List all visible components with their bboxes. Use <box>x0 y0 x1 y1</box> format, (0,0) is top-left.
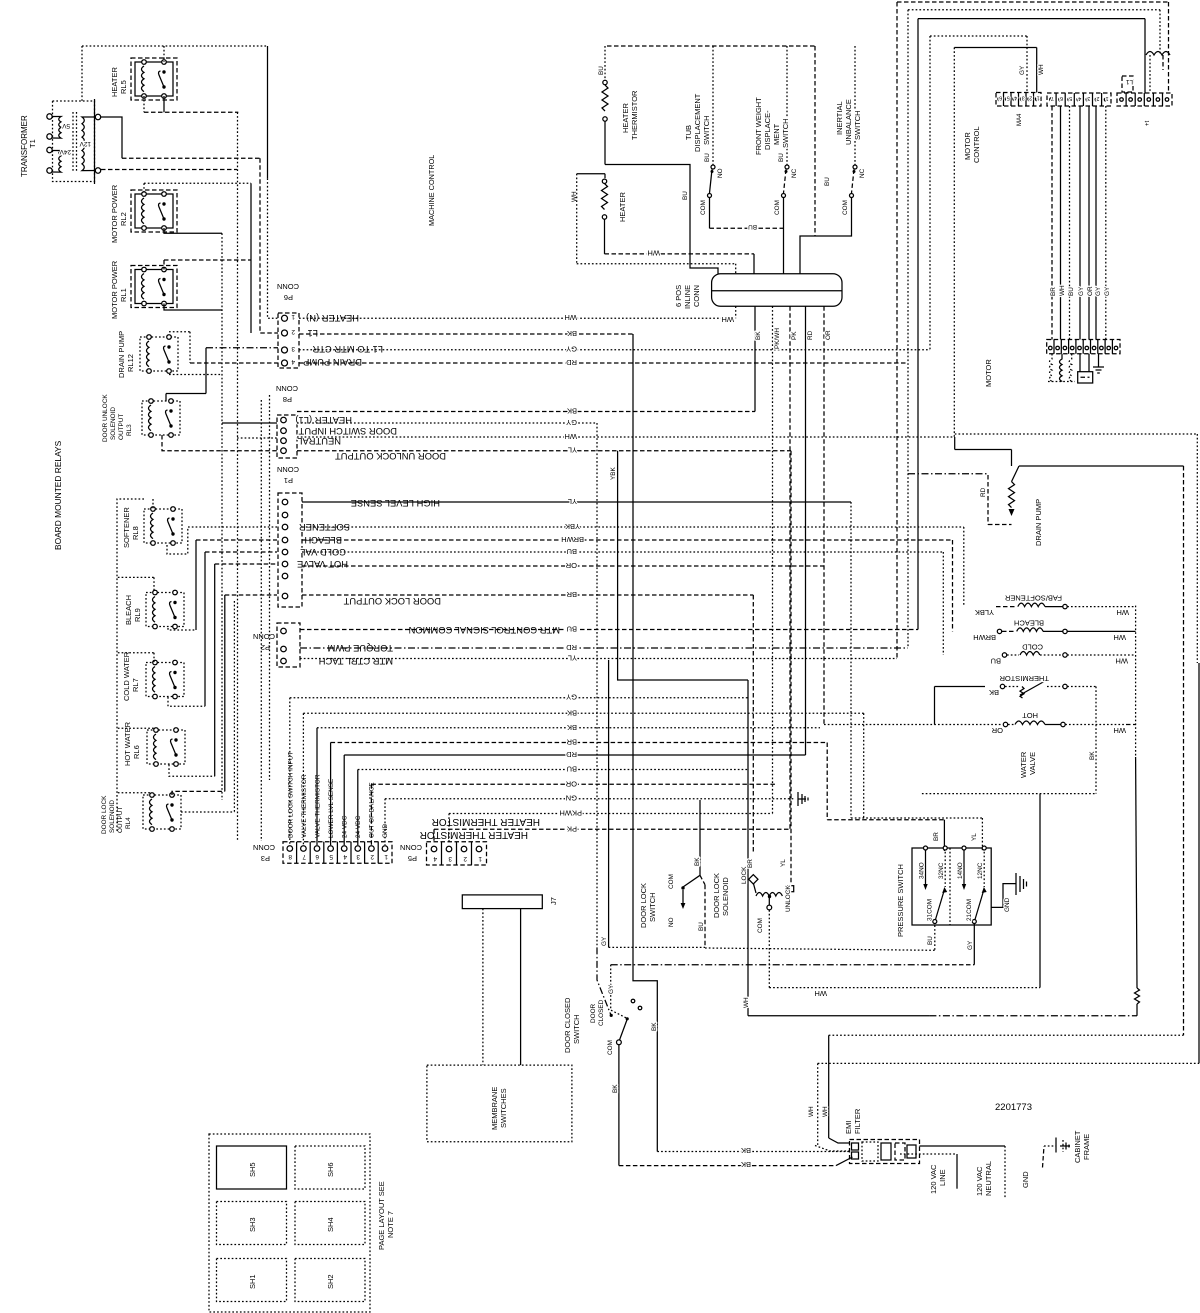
water valve THERMISTOR <box>935 674 1097 698</box>
connector P1 <box>278 493 302 607</box>
svg-text:BK: BK <box>741 1146 751 1155</box>
wire RL2 coil top <box>143 183 145 194</box>
svg-text:RD: RD <box>566 643 577 652</box>
svg-text:CABINET: CABINET <box>1073 1130 1082 1163</box>
thermistor return <box>922 793 1096 795</box>
svg-text:34NO: 34NO <box>919 862 926 879</box>
svg-text:HEATER: HEATER <box>621 103 630 133</box>
wire transformer secondary 1 <box>101 117 122 158</box>
connector P8 <box>277 415 297 458</box>
heater <box>571 174 736 274</box>
svg-text:P6: P6 <box>284 293 293 302</box>
svg-text:WH: WH <box>648 249 661 258</box>
wire row BK 713 <box>303 712 863 714</box>
svg-text:RL3: RL3 <box>126 424 133 436</box>
spine YL x617 <box>618 451 748 680</box>
svg-text:BU: BU <box>698 922 705 931</box>
svg-text:BK: BK <box>567 407 577 416</box>
svg-text:RD: RD <box>980 487 987 497</box>
svg-text:GY: GY <box>1019 65 1026 75</box>
svg-text:VALVE THERMISTOR: VALVE THERMISTOR <box>301 774 308 838</box>
svg-text:BU: BU <box>927 936 934 945</box>
svg-text:DOOR LOCK: DOOR LOCK <box>639 883 648 928</box>
svg-text:4: 4 <box>433 855 437 862</box>
svg-text:RD: RD <box>566 750 577 759</box>
svg-text:OUTPUT: OUTPUT <box>117 807 124 833</box>
svg-text:LOCK: LOCK <box>741 866 748 884</box>
svg-text:SH6: SH6 <box>326 1162 335 1177</box>
svg-text:HOT VALVE: HOT VALVE <box>297 559 348 570</box>
svg-text:6 POS: 6 POS <box>674 285 683 307</box>
svg-text:3: 3 <box>1087 95 1090 101</box>
wire x863 <box>863 713 865 819</box>
120VAC outputs <box>900 1146 1005 1198</box>
connector MA2 <box>1047 93 1111 106</box>
svg-text:BK: BK <box>567 708 577 717</box>
wire thermistor to conn <box>605 165 718 274</box>
svg-text:BLEACH: BLEACH <box>1014 619 1044 628</box>
wire row BU 552 <box>302 551 943 553</box>
svg-text:THERMISTOR: THERMISTOR <box>999 674 1049 683</box>
wire heater WH to conn <box>605 253 755 255</box>
svg-text:6: 6 <box>315 853 319 860</box>
svg-text:BK: BK <box>612 1084 619 1093</box>
MIDRIGHT <box>824 450 1184 779</box>
water valve BLEACH <box>973 619 1135 643</box>
svg-text:CONN: CONN <box>276 384 298 393</box>
wire row RD 755 <box>344 754 805 756</box>
relay RL6 <box>147 728 185 767</box>
spine GY x597 <box>596 423 598 947</box>
svg-text:31COM: 31COM <box>927 899 934 921</box>
motor capacitor <box>1078 354 1093 383</box>
svg-text:MOTOR POWER: MOTOR POWER <box>110 260 119 319</box>
spine x930 <box>929 36 931 350</box>
svg-text:1: 1 <box>1037 95 1040 101</box>
svg-text:MTR CONTROL SIGNAL COMMON: MTR CONTROL SIGNAL COMMON <box>409 625 560 636</box>
svg-text:BR: BR <box>1050 287 1057 296</box>
spine x908 <box>907 10 909 648</box>
svg-text:NC: NC <box>791 168 798 178</box>
svg-text:VALVE THERMISTOR: VALVE THERMISTOR <box>315 774 322 838</box>
svg-text:BU: BU <box>682 191 689 200</box>
spine x954 <box>953 48 955 438</box>
svg-text:SWITCH: SWITCH <box>702 115 711 145</box>
svg-text:TUB: TUB <box>684 125 693 140</box>
wire RL6 coil feed <box>118 727 155 729</box>
wire spine x237 <box>237 112 239 841</box>
connector P3 <box>283 842 392 864</box>
svg-text:CONN: CONN <box>277 465 299 474</box>
svg-text:UNBALANCE: UNBALANCE <box>844 99 853 145</box>
svg-text:SWITCHES: SWITCHES <box>499 1088 508 1128</box>
wire RL8 to P1 softener <box>167 527 277 554</box>
svg-text:BU: BU <box>748 223 757 230</box>
svg-text:BRWH: BRWH <box>973 633 996 642</box>
svg-text:1: 1 <box>478 855 482 862</box>
wire spine x269 <box>269 395 271 780</box>
TOPRIGHT <box>897 2 1172 387</box>
svg-text:24 VDC: 24 VDC <box>355 815 362 838</box>
svg-text:RL1: RL1 <box>119 288 128 302</box>
svg-text:UNLOCK: UNLOCK <box>785 885 792 912</box>
wire row WH 437 <box>297 436 955 438</box>
svg-text:COM: COM <box>774 200 781 215</box>
svg-text:DOOR UNLOCK: DOOR UNLOCK <box>102 394 109 442</box>
svg-text:HOT: HOT <box>1022 711 1038 720</box>
wire RL5 top dotted bus <box>82 45 268 47</box>
relay RL4 <box>143 793 181 832</box>
EMI filter <box>850 1140 920 1164</box>
svg-text:BU: BU <box>778 153 785 162</box>
svg-text:BR: BR <box>566 738 577 747</box>
motor terminal strip <box>1047 340 1120 354</box>
svg-text:WH: WH <box>722 315 735 324</box>
svg-text:GY: GY <box>601 936 608 946</box>
svg-text:DOOR: DOOR <box>590 1003 597 1023</box>
svg-text:3: 3 <box>356 853 360 860</box>
svg-text:4: 4 <box>1078 95 1081 101</box>
BK from door closed <box>618 1045 620 1166</box>
wire RL7 to P1 cold <box>168 697 205 706</box>
door lock switch <box>668 800 701 927</box>
svg-text:THERMISTOR: THERMISTOR <box>630 90 639 140</box>
wire row BK 411 <box>297 411 755 413</box>
page layout <box>209 1134 370 1312</box>
svg-text:DRAIN PUMP: DRAIN PUMP <box>1034 499 1043 546</box>
svg-text:2: 2 <box>463 855 467 862</box>
wire row BK 334 <box>299 333 633 335</box>
pressure switch gnd <box>991 873 1026 912</box>
svg-text:GY: GY <box>566 345 577 354</box>
svg-text:BU: BU <box>991 657 1001 666</box>
BOTTOM <box>209 800 1091 1312</box>
right vertical x1183 <box>1183 466 1185 1035</box>
svg-text:RL12: RL12 <box>126 354 135 372</box>
svg-text:DOOR CLOSED: DOOR CLOSED <box>563 997 572 1053</box>
TOPMID <box>427 46 866 349</box>
wire RL3 bottom to P8 <box>162 435 277 451</box>
svg-text:MOTOR: MOTOR <box>984 359 993 387</box>
svg-text:SWITCH: SWITCH <box>853 110 862 140</box>
svg-text:HEATER: HEATER <box>110 67 119 97</box>
svg-text:GN: GN <box>566 794 577 803</box>
svg-text:BK: BK <box>567 329 577 338</box>
svg-text:7: 7 <box>302 853 306 860</box>
wire RL12 bottom to spine <box>169 374 222 376</box>
svg-text:DISPLACEMENT: DISPLACEMENT <box>693 93 702 152</box>
svg-text:NO: NO <box>668 917 675 927</box>
svg-text:BLEACH: BLEACH <box>124 595 133 625</box>
svg-text:CONN: CONN <box>400 843 422 852</box>
svg-text:WH: WH <box>1059 285 1066 296</box>
svg-text:RD: RD <box>807 330 814 340</box>
svg-text:HEATER: HEATER <box>618 192 627 222</box>
svg-text:DOOR UNLOCK OUTPUT: DOOR UNLOCK OUTPUT <box>335 451 446 462</box>
svg-text:PK: PK <box>791 331 798 340</box>
svg-text:PAGE LAYOUT SEE: PAGE LAYOUT SEE <box>377 1181 386 1250</box>
svg-text:BR: BR <box>566 590 577 599</box>
svg-text:SH5: SH5 <box>248 1162 257 1177</box>
dotted enclosure around lower relays <box>117 499 144 832</box>
svg-text:YBK: YBK <box>610 466 617 480</box>
svg-text:GY: GY <box>1095 286 1102 296</box>
wire row GY 698 <box>290 697 748 699</box>
transformer T1 <box>47 99 101 184</box>
svg-text:HIGH LEVEL SENSE: HIGH LEVEL SENSE <box>351 498 440 509</box>
thermal protector coil <box>1146 52 1170 94</box>
svg-text:BK: BK <box>989 688 999 697</box>
connector MA1 <box>1117 93 1172 106</box>
door lock solenoid <box>741 859 794 933</box>
WH bus x1135 <box>1135 606 1137 757</box>
svg-text:MOTOR POWER: MOTOR POWER <box>110 184 119 243</box>
svg-text:2: 2 <box>1029 95 1032 101</box>
relay RL9 <box>146 590 184 629</box>
svg-text:NO: NO <box>717 168 724 178</box>
svg-text:EMI: EMI <box>844 1121 853 1134</box>
wire RL4 to P1 door lock output <box>172 791 225 795</box>
heater thermistor <box>598 46 608 165</box>
EMI feeds <box>829 1034 1184 1036</box>
svg-text:RL4: RL4 <box>125 817 132 829</box>
wire RL6 to P1 hot <box>169 765 215 777</box>
wire row RD 648 <box>300 647 908 649</box>
svg-text:DRAIN PUMP: DRAIN PUMP <box>303 357 362 368</box>
svg-text:CONN: CONN <box>277 282 299 291</box>
svg-text:P2: P2 <box>261 643 270 652</box>
svg-text:OR: OR <box>565 779 577 788</box>
svg-text:BU: BU <box>1068 287 1075 296</box>
svg-text:DOOR LOCK SWITCH INPUT: DOOR LOCK SWITCH INPUT <box>288 752 295 838</box>
membrane switches <box>427 1065 572 1142</box>
svg-text:YL: YL <box>568 497 577 506</box>
svg-text:HEATER THERMISTOR: HEATER THERMISTOR <box>420 829 528 840</box>
svg-text:GY: GY <box>967 940 974 950</box>
svg-text:1: 1 <box>291 313 295 320</box>
svg-text:GND: GND <box>1004 897 1011 912</box>
svg-text:HEATER THERMISTOR: HEATER THERMISTOR <box>432 816 540 827</box>
svg-text:SOLENOID: SOLENOID <box>109 800 116 833</box>
CONNECTORS <box>253 282 560 865</box>
svg-text:NEUTRAL: NEUTRAL <box>984 1161 993 1196</box>
wire row BU 629 <box>300 629 918 631</box>
motor ground <box>1093 354 1104 373</box>
svg-text:32NC: 32NC <box>938 862 945 879</box>
svg-text:6: 6 <box>999 95 1002 101</box>
svg-text:4: 4 <box>343 853 347 860</box>
door closed switch <box>590 999 642 1055</box>
right vertical x1199 <box>1198 663 1200 1063</box>
svg-text:2201773: 2201773 <box>995 1102 1032 1113</box>
svg-text:MACHINE CONTROL: MACHINE CONTROL <box>427 155 436 226</box>
svg-text:RL9: RL9 <box>133 608 142 622</box>
svg-text:SWITCH: SWITCH <box>572 1014 581 1044</box>
svg-text:YLBK: YLBK <box>975 608 994 617</box>
connector P6 <box>278 313 299 368</box>
svg-text:J7: J7 <box>549 897 558 905</box>
wire row BK 728 <box>317 727 820 729</box>
svg-text:GY: GY <box>566 418 577 427</box>
wire P6 pin3 from RL3 top <box>206 347 278 349</box>
svg-text:BK: BK <box>567 723 577 732</box>
svg-text:OR: OR <box>565 561 577 570</box>
svg-text:WH: WH <box>1117 608 1130 617</box>
svg-text:OUTPUT: OUTPUT <box>118 414 125 440</box>
svg-text:BOARD MOUNTED RELAYS: BOARD MOUNTED RELAYS <box>53 440 63 550</box>
wire row YL 451 <box>297 450 791 452</box>
switch enclosure top <box>607 45 815 47</box>
svg-text:5: 5 <box>1069 95 1072 101</box>
svg-text:WH: WH <box>565 432 578 441</box>
svg-text:24 VDC: 24 VDC <box>342 815 349 838</box>
connector P5 <box>427 842 487 865</box>
svg-text:5V: 5V <box>61 122 70 129</box>
wire RL7 coil feed <box>118 652 154 654</box>
svg-text:BU: BU <box>567 547 577 556</box>
svg-text:FAB/SOFTENER: FAB/SOFTENER <box>1004 594 1062 603</box>
svg-text:OR: OR <box>991 726 1003 735</box>
wire transformer secondary 2 <box>101 169 237 171</box>
svg-text:4: 4 <box>291 358 295 365</box>
svg-text:GND: GND <box>1021 1171 1030 1188</box>
spine x918 <box>917 19 919 630</box>
LEFT-RELAYS <box>20 58 185 834</box>
svg-text:DISPLACE-: DISPLACE- <box>763 110 772 150</box>
svg-text:RD: RD <box>566 358 577 367</box>
svg-text:PKWH: PKWH <box>560 809 583 818</box>
svg-text:YBK: YBK <box>565 522 580 531</box>
wire RL12 top to P6 pin4 <box>169 331 190 333</box>
svg-text:GY: GY <box>1078 286 1085 296</box>
motor windings <box>1048 354 1075 382</box>
svg-text:7: 7 <box>1051 95 1054 101</box>
relay RL3 <box>142 399 180 438</box>
svg-text:GY: GY <box>566 693 577 702</box>
svg-text:BK: BK <box>755 331 762 340</box>
wire P6 pin1 feed <box>267 46 269 178</box>
svg-text:MENT: MENT <box>772 123 781 145</box>
svg-text:4: 4 <box>1014 95 1017 101</box>
svg-text:CONN: CONN <box>253 843 275 852</box>
svg-text:SWITCH: SWITCH <box>648 892 657 922</box>
svg-text:SOLENOID: SOLENOID <box>721 877 730 916</box>
svg-text:5: 5 <box>1007 95 1010 101</box>
svg-text:DRAIN PUMP: DRAIN PUMP <box>117 331 126 378</box>
svg-text:WH: WH <box>1114 726 1127 735</box>
wire row BR 742 <box>331 742 828 744</box>
svg-text:BU: BU <box>824 177 831 186</box>
connector MA4 <box>996 93 1041 107</box>
svg-text:WH: WH <box>815 989 828 998</box>
svg-text:BR: BR <box>933 832 940 841</box>
svg-text:MA4: MA4 <box>1017 113 1023 126</box>
svg-text:2: 2 <box>1096 95 1099 101</box>
wire row YL 658 <box>300 658 897 660</box>
svg-text:14NO: 14NO <box>957 862 964 879</box>
svg-text:MOTOR: MOTOR <box>963 132 972 160</box>
relay RL5 <box>135 60 173 99</box>
svg-text:SOFTENER: SOFTENER <box>122 507 131 548</box>
svg-text:WH: WH <box>808 1106 815 1117</box>
svg-text:VALVE: VALVE <box>1028 752 1037 775</box>
svg-text:21COM: 21COM <box>966 899 973 921</box>
tub COM to front weight COM <box>710 227 784 229</box>
spine BK x633 <box>633 334 657 1152</box>
svg-text:YL: YL <box>568 446 577 455</box>
svg-text:WH: WH <box>1038 64 1045 75</box>
6 pos inline connector <box>712 274 842 307</box>
drain pump <box>908 450 1184 525</box>
spine GY x608 <box>608 660 610 947</box>
svg-text:1: 1 <box>384 853 388 860</box>
wire P8 pin2 feed <box>222 422 277 424</box>
svg-text:WH: WH <box>1114 633 1127 642</box>
svg-text:BR: BR <box>747 859 754 868</box>
svg-text:RL6: RL6 <box>132 745 141 759</box>
svg-text:COM: COM <box>607 1040 614 1055</box>
svg-text:COM: COM <box>700 200 707 215</box>
svg-text:SH1: SH1 <box>248 1274 257 1289</box>
svg-text:INLINE: INLINE <box>683 285 692 309</box>
svg-text:SWITCH: SWITCH <box>781 118 790 148</box>
wire row PK 829 <box>434 828 790 830</box>
svg-text:BK: BK <box>741 1160 751 1169</box>
wire P8 pin3 feed <box>237 437 277 439</box>
wire row YBK 527 <box>302 526 964 528</box>
wire row RD 363 <box>299 362 908 364</box>
spine x897 <box>896 2 898 660</box>
svg-text:T1: T1 <box>28 139 37 148</box>
water valve FAB/SOFTENER <box>975 594 1136 618</box>
wire RL1 top <box>163 260 165 270</box>
svg-text:1: 1 <box>1106 95 1109 101</box>
inertial unbalance switch <box>800 46 866 274</box>
wire row OR 784 <box>371 783 775 785</box>
svg-text:BU: BU <box>704 153 711 162</box>
svg-text:WATER: WATER <box>1019 751 1028 778</box>
svg-text:BRWH: BRWH <box>561 535 584 544</box>
wire row GY 423 <box>297 422 597 424</box>
svg-text:SH3: SH3 <box>248 1217 257 1232</box>
svg-text:OR: OR <box>1087 286 1094 296</box>
tub displacement switch <box>700 46 724 228</box>
svg-text:CLOSED: CLOSED <box>598 999 605 1026</box>
svg-text:RL5: RL5 <box>119 80 128 94</box>
L1 box <box>1122 76 1133 93</box>
wire RL2 bottom <box>164 228 222 233</box>
svg-text:P3: P3 <box>261 854 270 863</box>
relay RL2 <box>135 192 173 231</box>
svg-text:BU: BU <box>567 625 577 634</box>
svg-text:MTR CTRL TACH: MTR CTRL TACH <box>319 656 393 667</box>
wire row WH 318 <box>299 317 736 319</box>
svg-text:COM: COM <box>842 200 849 215</box>
svg-text:3: 3 <box>291 345 295 352</box>
svg-text:YL: YL <box>971 833 978 841</box>
svg-text:PRESSURE SWITCH: PRESSURE SWITCH <box>896 864 905 937</box>
wire labels column <box>560 313 585 833</box>
wire RL8 coil feed <box>152 499 154 509</box>
svg-text:COM: COM <box>668 874 675 889</box>
svg-text:WH: WH <box>565 313 578 322</box>
GY net 964 <box>611 964 924 966</box>
svg-text:CONTROL: CONTROL <box>972 126 981 163</box>
BU net bottom <box>700 875 705 884</box>
relay RL1 <box>135 267 173 306</box>
svg-text:DOOR LOCK: DOOR LOCK <box>101 795 108 834</box>
wire RL9 coil feed <box>118 576 154 578</box>
